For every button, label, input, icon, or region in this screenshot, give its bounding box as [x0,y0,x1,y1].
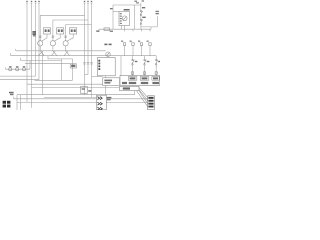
logo mark bottom left [3,101,11,108]
small text bottom left [9,92,14,94]
shield connector block [97,95,107,110]
inline connector J3 [22,68,25,71]
connector C101 label box [43,28,50,34]
wire relay drops to bus [125,29,151,31]
wire L4 left bus vertical 4 [38,3,40,80]
wire below G2 [51,46,57,56]
connector label box CC [152,77,159,81]
wire relay drop [134,5,136,29]
node terminals top center [84,2,93,4]
wire vertical V72 [72,59,74,80]
wire long vertical V42 [42,51,44,95]
labels above center verticals [84,1,85,2]
wire C2 to shield block [105,85,107,95]
wire right edge column [141,16,157,29]
fuse F4 [104,28,110,31]
text in C103 [71,29,73,32]
wire y76.7 [92,76,103,78]
U2 pin labels [120,13,122,14]
ECU module U1 box [98,58,116,76]
wire drop D2 to sensor G2 [52,20,54,41]
wire bottom bus y84.2 [27,83,103,85]
wire below G3 [64,46,70,56]
wire center vertical M3 [91,3,93,97]
text in C2 [104,80,112,82]
switch SW1 column [140,3,142,30]
wire riser to top [112,5,114,29]
wire to left edge y76 [0,75,36,77]
connector C102 label box [57,28,64,34]
wire bottom bus y87.6 [32,87,120,89]
injector G2 circle [50,41,55,46]
inline connector J1 [9,68,12,71]
switch SW1 contact b [140,19,141,20]
label left of fuse wire [96,30,99,32]
labels top right column [134,1,137,2]
bus wire B1 [16,49,106,51]
connector C103 label box [70,28,77,34]
relay box MB1 [120,86,140,90]
wire L2 left bus vertical 2 [31,3,33,108]
wire bottom bus y94.4 [17,94,135,96]
motor symbol in U2 [122,16,127,21]
wire stub box2 to G2 [54,34,60,41]
text in CA CB CC [130,77,136,79]
connector box C2 [103,78,120,86]
text in MB1 [123,87,130,89]
pump motor box U2 [119,12,130,26]
fan wires to detail box [137,88,148,107]
U2 label above [124,9,130,11]
wire L3 left bus vertical 3 [35,3,37,76]
node terminals top of left bus [26,2,40,4]
detail connector box [148,96,155,110]
wire vertical V61 [61,59,63,80]
wire stubs right of block [106,97,111,99]
label in C3 [82,88,85,89]
connector label box CA [128,77,137,81]
connector breaks on M1 M2 M3 [83,63,92,64]
wire into lower box [105,76,107,78]
wire feeder F1 top [40,14,84,16]
buzzer on U1 [106,52,110,56]
wire to left edge y79.7 [0,79,39,81]
junction block box [120,76,160,86]
wire mid-left branch y60 [20,58,61,61]
switch SW3 [144,56,146,76]
wire U2 bottom stubs [122,26,125,30]
label right of shield block [107,97,111,98]
label above V72 box [71,65,75,67]
wire drop D3 to sensor G3 [65,25,67,41]
wire below G1 [39,46,45,56]
wire mid-left branch y63.7 [25,63,70,65]
text rows in junction block [122,82,127,84]
wire L1 left bus vertical 1 [26,3,28,102]
tiny text marks (unreadable labels) [9,0,160,107]
injector G1 circle [38,41,43,46]
injector G3 circle [63,41,68,46]
label left of riser [110,8,113,9]
wire stub to pump box [113,11,119,13]
wire bottom bus y97.4 [44,96,97,98]
shield block chevrons [97,97,102,111]
wire center vertical M1 [84,3,86,95]
connector label box CB [140,77,149,81]
wire hooks bottom left [14,95,21,110]
connector label on V72 [70,64,76,68]
labels above J row [9,66,12,67]
wire left drop right block [120,56,122,76]
switch SW2 [132,56,134,76]
wire stub box1 to G1 [41,34,47,41]
connector plugs row [123,43,125,46]
labels near connector plugs row [121,41,123,42]
labels above left bus [26,1,27,2]
wire code blob left [32,31,36,33]
wire drop D1 to sensor G1 [39,15,41,40]
wire under detail box [134,91,136,95]
wire diode row [6,60,31,69]
wire link M1-M2 bottom [85,74,89,76]
wire feeder F2 [53,19,88,21]
wire bottom bus y102 [17,102,148,104]
bus wire B2 [11,53,157,56]
switch SW1 contact a [140,11,141,12]
wire bottom bus y98.6 [14,98,148,100]
wire feeder F3 [66,24,92,26]
connector box C3 on center wires [81,87,88,94]
wire center vertical M2 [87,3,89,75]
text in C102 [58,29,60,32]
wire step S1 [48,56,73,59]
text in C101 [45,29,47,32]
wire drops to bus2 [125,46,151,56]
label right of C3 [88,90,91,92]
label pair mid right [104,44,107,46]
switch SW4 [155,56,157,76]
wire fuse feed [99,29,151,31]
text rows in detail box [148,97,153,99]
connector break marks on drops [39,36,67,37]
wire top rail [113,4,141,6]
inline connector J2 [16,68,19,71]
labels right of switches [135,61,138,62]
wire stub box3 to G3 [67,34,74,41]
U1 pin marks [98,60,100,62]
wire bottom step [35,79,73,81]
label near fuse [110,31,113,32]
